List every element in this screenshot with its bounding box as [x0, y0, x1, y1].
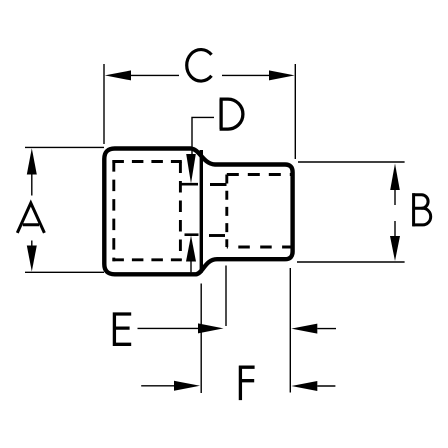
dimension B line upper segment — [394, 189, 396, 205]
dimension A extension line bottom — [25, 271, 104, 273]
dimension C line right segment — [222, 74, 269, 76]
dimension A line lower segment — [31, 241, 33, 246]
hidden drive-hole (right section), dashed: left vertical — [225, 175, 228, 248]
label F — [239, 366, 255, 400]
dimension D arrow bottom tail — [190, 262, 192, 273]
dimension B extension line bottom — [297, 261, 405, 263]
dimension E arrow left (points right) — [198, 323, 224, 333]
dimension E right tail — [317, 328, 336, 330]
dimension F arrow left (points right) — [174, 381, 200, 391]
dimension D arrow top (down) — [186, 154, 196, 184]
label E — [113, 312, 131, 346]
extension line from right face (for E and F) — [289, 268, 291, 393]
label D — [220, 99, 243, 129]
hidden through-hole top line — [181, 183, 198, 186]
dimension D leader line — [192, 117, 214, 157]
dimension C extension line right — [294, 64, 296, 159]
dimension A extension line top — [25, 146, 104, 148]
hidden square opening: bottom edge — [112, 258, 181, 261]
dimension E arrow right (points left) — [291, 324, 317, 334]
dimension C line left segment — [131, 74, 179, 76]
dimension F arrow right (points left) — [291, 381, 317, 391]
dimension A arrow up — [27, 148, 37, 174]
label B — [412, 193, 430, 226]
extension line from right section start (for E) — [225, 266, 227, 327]
hidden through-hole bottom line — [185, 233, 199, 236]
hidden drive-hole top line — [227, 173, 293, 176]
dimension B arrow up — [390, 164, 400, 191]
dimension B arrow down — [390, 236, 400, 261]
dimension F right tail — [317, 385, 335, 387]
extension line from section boundary (for F) — [200, 284, 202, 394]
hidden square opening: right edge — [179, 162, 182, 260]
dimension A line upper segment — [31, 175, 33, 196]
dimension C arrow left — [105, 70, 131, 80]
dimension B line lower segment — [394, 221, 396, 236]
dimension C extension line left — [103, 64, 105, 144]
dimension D arrow bottom (up) — [186, 236, 196, 262]
body section boundary edge line — [200, 150, 203, 273]
dimension E line — [138, 327, 199, 329]
dimension F line — [141, 385, 174, 387]
hidden square opening: left edge — [112, 160, 115, 261]
socket body outline (left large section with taper to right small section) — [104, 149, 292, 275]
dimension B extension line top — [298, 161, 405, 163]
dimension C arrow right — [269, 70, 295, 80]
label A — [17, 203, 44, 233]
hidden drive-hole bottom line — [227, 246, 293, 249]
dimension A arrow down — [27, 246, 37, 272]
label C — [187, 50, 212, 81]
hidden square opening (left section), dashed: top edge — [112, 160, 181, 163]
